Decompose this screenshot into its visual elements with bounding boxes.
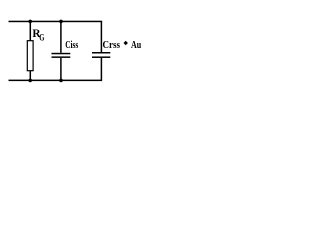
svg-text:Au: Au — [131, 40, 142, 51]
capacitor C2 Crss bottom plate — [92, 56, 110, 58]
capacitor C2 Crss top plate — [92, 52, 110, 54]
wire bottom rail — [9, 80, 103, 82]
node Ciss bottom junction — [59, 79, 63, 83]
node RG top junction — [28, 20, 32, 24]
wire RG top lead — [30, 21, 32, 41]
capacitor C1 Ciss top plate — [52, 53, 71, 55]
svg-text:Ciss: Ciss — [65, 40, 78, 51]
node RG bottom junction — [28, 79, 32, 83]
wire Crss branch top lead — [101, 21, 103, 52]
resistor R1 body — [27, 41, 33, 71]
label multiply star — [124, 41, 128, 46]
wire Ciss bottom lead — [60, 58, 62, 80]
wire Ciss top lead — [60, 21, 62, 53]
capacitor C1 Ciss bottom plate — [52, 56, 71, 58]
wire top rail — [9, 21, 103, 23]
wire Crss bottom lead — [101, 58, 103, 80]
svg-text:Crss: Crss — [103, 40, 121, 51]
wire RG bottom lead — [30, 71, 32, 81]
svg-text:G: G — [39, 34, 45, 44]
node Ciss top junction — [59, 20, 63, 24]
